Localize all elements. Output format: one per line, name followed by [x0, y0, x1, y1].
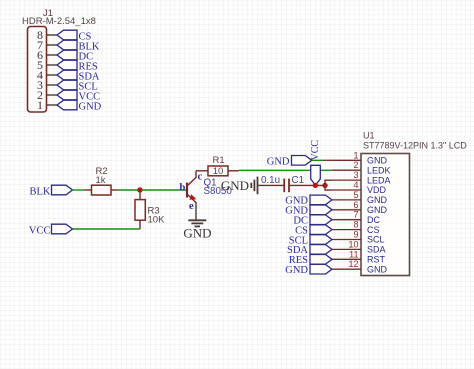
svg-text:GND: GND: [367, 205, 388, 215]
U1 pin 8 CS: [332, 220, 380, 235]
J1 pin 2: [37, 88, 57, 102]
junction node: [137, 187, 142, 192]
resistor R2: [92, 166, 112, 195]
wire GND flag to U1 pin 1: [312, 159, 323, 161]
net label GND (J1 pin 1): [57, 100, 102, 112]
U1 pin 12 GND: [332, 259, 388, 274]
svg-text:5: 5: [353, 190, 358, 200]
svg-text:GND: GND: [221, 178, 249, 193]
U1 pin 2 LEDK: [332, 160, 391, 175]
svg-text:8: 8: [353, 220, 358, 230]
U1 pin 7 DC: [332, 210, 380, 225]
net label DC (U1 pin 7): [293, 215, 332, 227]
svg-text:1: 1: [353, 150, 358, 160]
net label CS (U1 pin 8): [295, 225, 332, 237]
svg-text:LEDK: LEDK: [367, 165, 391, 175]
net label DC (J1 pin 6): [57, 50, 93, 62]
IC U1: [361, 131, 467, 276]
U1 pin 3 LEDA: [332, 170, 391, 185]
svg-text:HDR-M-2.54_1x8: HDR-M-2.54_1x8: [22, 16, 96, 27]
svg-text:U1: U1: [363, 131, 375, 141]
wire R3 to VCC: [73, 228, 141, 230]
svg-text:GND: GND: [285, 265, 308, 276]
U1 pin 4 VDD: [332, 180, 387, 195]
U1 pin 6 GND: [332, 200, 388, 215]
svg-text:C1: C1: [292, 175, 305, 186]
svg-text:11: 11: [349, 249, 358, 259]
wire R3 top pin: [139, 190, 141, 200]
net label BLK (J1 pin 7): [57, 40, 100, 52]
net label SCL (U1 pin 9): [289, 235, 332, 247]
svg-text:GND: GND: [367, 156, 388, 166]
net label GND (U1 pin 6): [285, 205, 332, 217]
wire R2 to Q1 base: [118, 189, 187, 191]
net label VCC (vertical): [310, 140, 321, 186]
svg-text:RST: RST: [367, 255, 386, 265]
svg-text:b: b: [180, 183, 186, 194]
J1 pin 7: [37, 38, 57, 52]
resistor R1: [196, 155, 239, 177]
svg-text:LEDA: LEDA: [367, 175, 391, 185]
wire R2 right pin: [111, 189, 118, 191]
J1 pin 3: [37, 78, 57, 92]
wire C1 to node: [289, 184, 325, 186]
svg-text:R1: R1: [213, 155, 225, 166]
svg-text:BLK: BLK: [30, 187, 51, 198]
ground (C1 left): [221, 177, 258, 195]
svg-text:GND: GND: [367, 195, 388, 205]
svg-text:GND: GND: [267, 157, 290, 168]
connector J1: [22, 8, 96, 112]
J1 pin 1: [37, 98, 57, 112]
net label GND (U1 pin 5): [285, 195, 332, 207]
wire BLK to R2: [73, 189, 85, 191]
wire node to U1 pin 4: [325, 185, 332, 190]
U1 pin 9 SCL: [332, 230, 385, 245]
svg-text:VCC: VCC: [310, 140, 321, 161]
net label VCC (left): [29, 224, 73, 236]
svg-text:VDD: VDD: [367, 185, 387, 195]
svg-text:1: 1: [37, 98, 43, 112]
svg-text:1k: 1k: [96, 175, 106, 186]
transistor Q1: [180, 171, 233, 220]
net label RES (J1 pin 5): [57, 60, 98, 72]
U1 pin 1 GND: [332, 150, 388, 165]
net label SCL (J1 pin 3): [57, 80, 98, 92]
svg-text:e: e: [189, 201, 194, 212]
U1 pin 10 SDA: [332, 239, 386, 254]
net label GND (U1 pin 12): [285, 264, 332, 276]
wire node to U1 pin 3: [325, 180, 332, 185]
svg-text:GND: GND: [79, 102, 102, 113]
ground (Q1 emitter): [183, 220, 211, 240]
wire ground to C1: [258, 184, 285, 186]
net label BLK (left): [30, 185, 73, 197]
svg-text:10K: 10K: [148, 215, 166, 226]
svg-text:SDA: SDA: [367, 245, 386, 255]
svg-text:0.1u: 0.1u: [261, 175, 280, 186]
svg-text:ST7789V-12PIN 1.3" LCD: ST7789V-12PIN 1.3" LCD: [363, 141, 467, 151]
net label SDA (J1 pin 4): [57, 70, 100, 82]
svg-text:SCL: SCL: [367, 235, 385, 245]
svg-text:c: c: [198, 172, 203, 183]
svg-text:9: 9: [353, 230, 358, 240]
svg-text:12: 12: [348, 259, 358, 269]
net label RES (U1 pin 11): [289, 255, 332, 267]
svg-text:DC: DC: [367, 215, 380, 225]
wire R2 left pin: [85, 189, 92, 191]
wire R1 to U1 pin 2 (LEDK): [239, 169, 332, 171]
svg-text:6: 6: [353, 200, 358, 210]
junction node VCC: [313, 183, 318, 188]
svg-text:4: 4: [353, 180, 358, 190]
svg-text:10: 10: [213, 166, 224, 177]
U1 pin 11 RST: [332, 249, 386, 264]
net label GND (U1 pin 1): [267, 156, 312, 168]
svg-text:7: 7: [353, 210, 358, 220]
svg-text:10: 10: [348, 239, 358, 249]
svg-text:GND: GND: [183, 226, 211, 241]
J1 pin 6: [37, 48, 57, 62]
net label CS (J1 pin 8): [57, 30, 92, 42]
resistor R3: [135, 200, 165, 226]
wire R3 bottom pin: [139, 220, 141, 229]
U1 pin 5 GND: [332, 190, 388, 205]
J1 pin 5: [37, 58, 57, 72]
svg-text:3: 3: [353, 170, 358, 180]
svg-text:VCC: VCC: [29, 226, 51, 237]
capacitor C1: [261, 175, 304, 192]
svg-text:GND: GND: [367, 264, 388, 274]
J1 pin 8: [37, 28, 57, 42]
junction node LEDA/VDD: [322, 183, 327, 188]
net label SDA (U1 pin 10): [287, 245, 332, 257]
net label VCC (J1 pin 2): [57, 90, 100, 102]
svg-text:CS: CS: [367, 225, 380, 235]
J1 pin 4: [37, 68, 57, 82]
svg-text:2: 2: [353, 160, 358, 170]
